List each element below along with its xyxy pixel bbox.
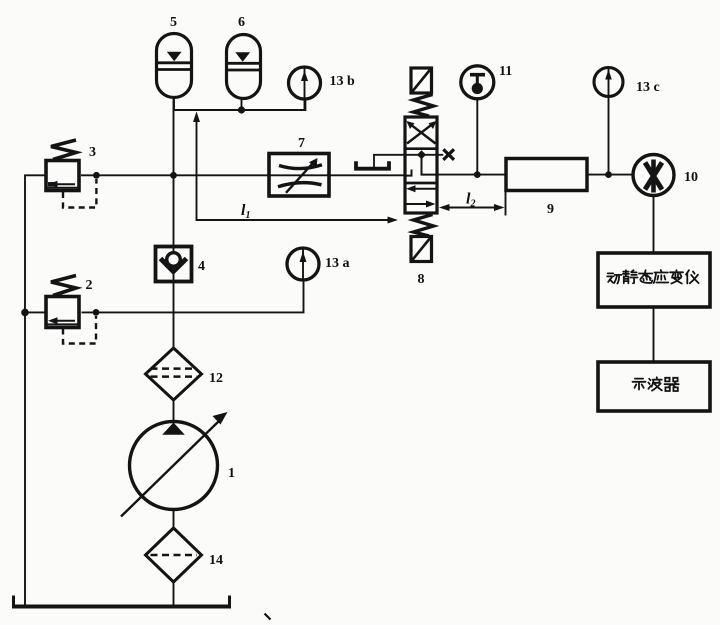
- svg-text:6: 6: [238, 15, 245, 30]
- svg-text:9: 9: [547, 202, 554, 217]
- svg-text:4: 4: [198, 259, 205, 274]
- svg-text:2: 2: [86, 278, 93, 293]
- svg-text:10: 10: [684, 170, 698, 185]
- svg-text:12: 12: [209, 371, 223, 386]
- svg-text:13 c: 13 c: [636, 80, 660, 95]
- svg-text:13 b: 13 b: [330, 74, 356, 89]
- svg-text:14: 14: [209, 553, 223, 568]
- svg-text:1: 1: [228, 466, 235, 481]
- svg-text:3: 3: [89, 145, 96, 160]
- svg-text:8: 8: [418, 272, 425, 287]
- svg-text:5: 5: [170, 15, 177, 30]
- svg-text:13 a: 13 a: [325, 256, 350, 271]
- svg-text:7: 7: [298, 136, 305, 151]
- svg-text:11: 11: [499, 64, 512, 79]
